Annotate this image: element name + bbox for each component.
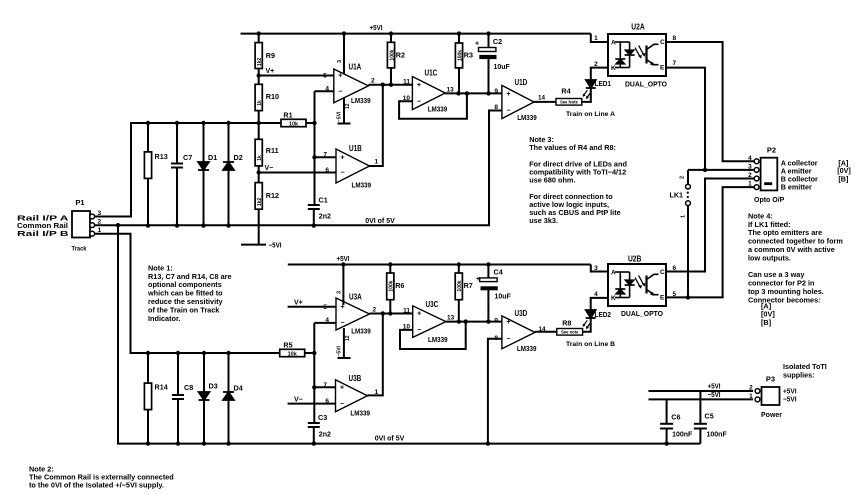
diode D3 [199, 382, 218, 401]
capacitor C4 [476, 268, 512, 301]
diode D4 [223, 384, 243, 401]
op-amp U3C [403, 300, 455, 344]
svg-text:LM339: LM339 [350, 411, 370, 418]
svg-text:1k2: 1k2 [257, 58, 263, 67]
svg-text:U1B: U1B [349, 144, 362, 153]
svg-text:0VI of 5V: 0VI of 5V [375, 436, 405, 443]
svg-text:1k2: 1k2 [257, 198, 263, 207]
wire D1 branch [203, 123, 205, 226]
svg-text:100k: 100k [457, 280, 463, 291]
junction C8 top on rail B [176, 351, 180, 355]
junction node V- (R11/R12) [257, 170, 261, 174]
label -5VI (P3) [783, 395, 797, 404]
label [0V] (P2) [837, 166, 851, 175]
junction R6 bottom on comparator bus [388, 311, 392, 315]
svg-text:12: 12 [345, 103, 351, 109]
wire D4 branch [228, 353, 230, 444]
LED LED1 [583, 80, 611, 99]
wire 0VI rail (bottom) [118, 225, 700, 443]
svg-text:U1D: U1D [515, 78, 528, 87]
svg-text:−: − [340, 170, 344, 177]
svg-text:E: E [660, 64, 665, 71]
junction U3B output on comparator bus [381, 311, 385, 315]
op-amp U3D [494, 309, 545, 353]
junction C7 top on rail A [175, 121, 179, 125]
net label 0VI of 5V (top) [365, 218, 395, 225]
resistor R1 [281, 111, 306, 128]
svg-text:LM339: LM339 [517, 346, 537, 353]
junction R9 top on +5VI rail [257, 31, 261, 35]
wire C8 bottom leg [177, 399, 179, 444]
svg-text:V+: V+ [294, 299, 303, 306]
net label V+ (top) [266, 68, 275, 75]
svg-text:+: + [338, 73, 342, 80]
op-amp U3B [323, 374, 378, 417]
svg-text:−: − [506, 108, 510, 115]
junction R14 bottom on 0VI rail [146, 441, 150, 445]
svg-text:LM339: LM339 [517, 115, 537, 122]
svg-text:−: − [417, 327, 421, 334]
svg-text:LM339: LM339 [351, 98, 371, 105]
svg-text:−: − [340, 401, 344, 408]
resistor R7 [455, 273, 473, 300]
wire U3A pin3 power [342, 265, 344, 306]
svg-text:8: 8 [673, 35, 677, 42]
svg-text:100nF: 100nF [707, 432, 728, 439]
junction R3 top on +5VI rail [457, 31, 461, 35]
svg-text:C8: C8 [184, 383, 193, 392]
svg-text:DUAL_OPTO: DUAL_OPTO [625, 80, 667, 89]
junction R5 right node [312, 351, 316, 355]
svg-text:U1C: U1C [425, 69, 438, 78]
svg-text:U3D: U3D [515, 309, 528, 318]
svg-text:R2: R2 [396, 51, 405, 60]
wire U1C feedback loop [399, 93, 467, 118]
svg-text:14: 14 [538, 95, 545, 102]
junction U3B +in tap [312, 385, 316, 389]
svg-text:2: 2 [680, 176, 686, 179]
svg-text:2: 2 [371, 78, 375, 85]
svg-text:100k: 100k [389, 280, 395, 291]
svg-text:−5VI: −5VI [269, 242, 282, 249]
svg-text:LM339: LM339 [428, 107, 448, 114]
svg-text:C: C [660, 39, 665, 46]
svg-text:U3B: U3B [349, 374, 362, 383]
svg-text:2: 2 [373, 307, 377, 314]
label Train on Line B [566, 341, 615, 348]
junction R6 top on +5VI rail [388, 262, 392, 266]
junction U1A pin3 on +5VI rail [342, 31, 346, 35]
svg-text:to the 0VI of the Isolated +/−: to the 0VI of the Isolated +/−5VI supply… [29, 481, 164, 490]
label [A] (P2) [838, 159, 848, 168]
svg-text:Indicator.: Indicator. [148, 314, 180, 323]
junction U1B output on comparator bus [381, 83, 385, 87]
svg-text:−5VI: −5VI [783, 395, 797, 404]
svg-text:V−: V− [265, 165, 274, 172]
junction C1 bottom on 0VI rail [312, 223, 316, 227]
wire D2 branch [228, 123, 230, 226]
label Rail I/P A [17, 214, 69, 223]
junction feedback on U3C output [464, 319, 468, 323]
wire U2A emitter riser [666, 68, 705, 170]
svg-text:R6: R6 [395, 281, 404, 290]
svg-text:2n2: 2n2 [319, 432, 331, 439]
junction R13 bottom on 0VI rail [146, 223, 150, 227]
svg-text:C4: C4 [494, 268, 503, 277]
svg-text:+: + [506, 91, 510, 98]
junction D1 bottom on 0VI rail [201, 223, 205, 227]
wire D3 branch [203, 353, 205, 444]
svg-text:10: 10 [403, 95, 411, 102]
svg-text:2: 2 [749, 385, 753, 392]
svg-text:U3A: U3A [349, 293, 362, 302]
wire U3B +in [314, 386, 335, 388]
note 2 text [29, 464, 174, 489]
svg-text:C6: C6 [671, 413, 680, 422]
svg-text:6: 6 [325, 167, 329, 174]
svg-text:+: + [340, 385, 344, 392]
svg-text:5: 5 [673, 291, 677, 298]
capacitor C7 [171, 153, 192, 168]
label B emitter [781, 183, 812, 192]
svg-text:10uF: 10uF [495, 293, 512, 300]
junction common rail branch at P1 [116, 223, 120, 227]
svg-text:R11: R11 [266, 146, 279, 155]
label [B] (P2) [838, 175, 848, 184]
svg-text:P2: P2 [767, 145, 776, 154]
wire -5VI stub to P3 pin1 [649, 398, 754, 400]
svg-text:1: 1 [594, 35, 598, 42]
svg-text:LM339: LM339 [352, 182, 372, 189]
label Train on Line A [566, 111, 615, 118]
svg-text:+: + [476, 276, 480, 283]
note 3 text [529, 135, 627, 225]
resistor R8 (See note) [557, 318, 583, 335]
junction D4 bottom on 0VI rail [226, 441, 230, 445]
wire P1 pin3 to rail A [94, 123, 282, 217]
svg-text:5: 5 [323, 73, 327, 80]
svg-text:V+: V+ [266, 68, 275, 75]
resistor R6 [387, 273, 405, 300]
op-amp U1C [403, 69, 454, 114]
wire C6 top leg [666, 399, 668, 423]
svg-text:−5VI: −5VI [708, 392, 721, 399]
wire C4 bottom leg [487, 290, 489, 322]
wire rail A segment R1 right [306, 122, 315, 124]
op-amp U3A [323, 291, 376, 357]
svg-text:R10: R10 [266, 92, 279, 101]
link LK1 [670, 176, 691, 218]
wire LK1 top link [687, 170, 689, 184]
junction divider tap on rail A [257, 121, 261, 125]
svg-text:R3: R3 [464, 51, 473, 60]
svg-text:100k: 100k [457, 50, 463, 61]
svg-text:14: 14 [539, 326, 546, 333]
label A emitter [781, 167, 812, 176]
svg-text:D1: D1 [208, 153, 217, 162]
wire U1C output row [445, 92, 502, 94]
svg-text:P1: P1 [75, 198, 84, 207]
svg-text:1: 1 [748, 181, 752, 188]
svg-text:1: 1 [375, 389, 379, 396]
junction U1B +in tap [312, 155, 316, 159]
svg-text:Opto O/P: Opto O/P [754, 197, 785, 204]
svg-text:K: K [611, 65, 616, 72]
wire C7 top leg [176, 123, 178, 164]
svg-text:100k: 100k [389, 49, 395, 60]
op-amp U1A [323, 60, 375, 122]
wire R8 to LED2 riser [582, 318, 591, 332]
svg-text:11: 11 [403, 78, 410, 85]
svg-text:6: 6 [325, 398, 329, 405]
svg-text:C7: C7 [183, 153, 192, 162]
svg-text:R9: R9 [266, 51, 275, 60]
wire U1D output to R4 [534, 101, 556, 103]
resistor R3 [455, 43, 473, 68]
svg-text:10uF: 10uF [494, 64, 511, 71]
resistor R4 (See Note) [556, 87, 582, 106]
opto-coupler U2B [594, 255, 676, 319]
power -5VI (U1A pin 12) [338, 98, 351, 124]
wire U3D -in riser [488, 339, 502, 444]
junction C4 bottom on U3C output [486, 319, 490, 323]
wire U1A output row [368, 84, 412, 86]
svg-text:R14: R14 [155, 383, 168, 392]
svg-text:R4: R4 [561, 87, 570, 96]
capacitor C1 [308, 196, 331, 221]
svg-text:R7: R7 [464, 281, 473, 290]
svg-text:11: 11 [403, 307, 410, 314]
svg-text:+: + [506, 319, 510, 326]
wire U1B output riser [368, 85, 382, 166]
svg-text:8: 8 [494, 335, 498, 342]
label Isolated ToTI supplies [783, 362, 827, 380]
net label 0VI of 5V (bottom) [375, 436, 405, 443]
svg-text:−5VI: −5VI [336, 345, 342, 356]
svg-text:supplies:: supplies: [783, 370, 815, 379]
svg-text:3: 3 [337, 291, 343, 294]
svg-text:R1: R1 [283, 111, 292, 120]
wire U3A output row [370, 313, 413, 315]
svg-text:+: + [340, 304, 344, 311]
capacitor C8 [172, 383, 193, 399]
svg-text:C2: C2 [493, 37, 502, 46]
svg-text:Power: Power [761, 412, 782, 419]
wire U3C output row [446, 321, 502, 323]
junction C2 top on +5VI rail [486, 31, 490, 35]
LED LED2 [583, 310, 611, 329]
wire C7 bottom leg [176, 168, 178, 226]
svg-text:use 3k3.: use 3k3. [529, 216, 558, 225]
wire U1B +in [315, 156, 337, 158]
net label +5VI (top rail) [370, 25, 383, 32]
wire LED1 to U2A K [591, 68, 608, 80]
svg-text:C3: C3 [318, 413, 327, 422]
svg-text:7: 7 [323, 382, 327, 389]
wire U1A -in [315, 90, 334, 92]
resistor R9 [255, 43, 275, 69]
op-amp U1D [494, 78, 545, 122]
svg-text:U2A: U2A [631, 23, 645, 32]
resistor R10 [255, 84, 279, 110]
svg-text:R13: R13 [155, 152, 168, 161]
svg-text:+5VI: +5VI [370, 25, 383, 32]
wire C8 top leg [177, 353, 179, 395]
diode D1 [198, 153, 217, 170]
junction LK1 on B-emitter wire [686, 295, 690, 299]
wire C3 bottom leg [313, 427, 315, 444]
svg-text:8: 8 [494, 104, 498, 111]
wire C5 top leg [699, 391, 701, 424]
wire V+ tap [259, 75, 334, 77]
svg-text:DUAL_OPTO: DUAL_OPTO [621, 309, 663, 318]
svg-text:P3: P3 [766, 375, 775, 384]
svg-text:D3: D3 [209, 382, 218, 391]
junction D2 top on rail A [226, 121, 230, 125]
note 1 text [147, 263, 232, 322]
svg-text:0VI of 5V: 0VI of 5V [365, 218, 395, 225]
svg-text:D4: D4 [234, 384, 243, 393]
connector P1 [72, 198, 102, 253]
wire U3A -in [314, 322, 336, 324]
svg-text:10k: 10k [288, 352, 298, 358]
junction D2 bottom on 0VI rail [226, 223, 230, 227]
junction D1 top on rail A [201, 121, 205, 125]
svg-text:1k: 1k [257, 155, 263, 161]
resistor R14 [144, 383, 167, 410]
svg-text:Train on Line A: Train on Line A [566, 111, 615, 118]
svg-text:10: 10 [403, 324, 411, 331]
net label V- (bottom) [294, 396, 303, 403]
wire C2 bottom leg [488, 59, 490, 93]
svg-text:−: − [340, 320, 344, 327]
junction D3 bottom on 0VI rail [202, 441, 206, 445]
svg-text:LED2: LED2 [595, 312, 612, 319]
junction node V+ (R9/R10) [257, 73, 261, 77]
svg-text:2: 2 [594, 61, 598, 68]
junction C3 bottom on 0VI rail [312, 441, 316, 445]
svg-text:+5VI: +5VI [708, 384, 721, 391]
diode D2 [223, 153, 243, 170]
svg-text:LED1: LED1 [595, 81, 612, 88]
wire P1 pin1 to rail B [94, 234, 281, 353]
wire R4 to LED1 riser [582, 88, 591, 102]
label Rail I/P B [17, 229, 69, 238]
svg-text:Connector becomes:: Connector becomes: [748, 295, 821, 304]
svg-text:10k: 10k [289, 122, 299, 128]
wire +5VI stub to P3 pin2 [649, 390, 754, 392]
wire divider chain R9-R12 [258, 34, 260, 245]
wire U3C feedback loop [400, 322, 466, 349]
wire C1 bottom leg [313, 209, 315, 226]
svg-text:K: K [611, 295, 616, 302]
svg-text:5: 5 [323, 304, 327, 311]
svg-text:6: 6 [673, 265, 677, 272]
resistor R5 [280, 341, 305, 358]
junction feedback on U1C output [465, 91, 469, 95]
svg-text:1: 1 [749, 393, 753, 400]
resistor R13 [144, 152, 167, 179]
resistor R11 [255, 139, 278, 166]
junction R1 right node [312, 121, 316, 125]
svg-text:LM339: LM339 [351, 329, 371, 336]
junction A-emitter / P2 pin3 / LK1 [703, 168, 707, 172]
svg-text:12: 12 [345, 335, 351, 341]
svg-text:+: + [475, 40, 479, 47]
svg-text:13: 13 [447, 87, 455, 94]
wire U2B collector to P2 pin2 [666, 179, 755, 272]
net label V- (top) [265, 165, 274, 172]
svg-text:13: 13 [447, 315, 455, 322]
svg-text:4: 4 [594, 291, 598, 298]
svg-text:See note: See note [561, 329, 579, 334]
svg-text:See Note: See Note [560, 99, 579, 104]
net label +5VI (bottom rail) [337, 256, 350, 263]
svg-text:2n2: 2n2 [319, 214, 331, 221]
wire R2 pull-up branch [390, 34, 392, 85]
svg-text:−5VI: −5VI [336, 111, 342, 122]
svg-text:use 680 ohm.: use 680 ohm. [529, 176, 575, 185]
svg-text:4: 4 [325, 85, 329, 92]
svg-text:3: 3 [748, 163, 752, 170]
junction C7 bottom on 0VI rail [175, 223, 179, 227]
svg-text:C1: C1 [319, 196, 328, 205]
svg-text:LK1: LK1 [670, 193, 684, 200]
wire C2 top stub [488, 34, 490, 48]
junction C2 bottom on U1C output [486, 91, 490, 95]
junction R7 bottom on U3C output [457, 319, 461, 323]
junction C4 top on +5VI rail [486, 262, 490, 266]
wire R13 branch [147, 123, 149, 226]
wire U3B output riser [367, 314, 382, 396]
svg-text:2: 2 [748, 172, 752, 179]
svg-text:The values of R4 and R8:: The values of R4 and R8: [529, 143, 616, 152]
junction U3A pin3 on +5VI rail [341, 262, 345, 266]
junction D3 top on rail B [202, 351, 206, 355]
capacitor C3 [308, 413, 331, 439]
junction R13 top on rail A [146, 121, 150, 125]
svg-text:V−: V− [294, 396, 303, 403]
wire V- tap [259, 172, 336, 174]
svg-text:1k: 1k [257, 100, 263, 106]
svg-text:R8: R8 [562, 318, 571, 327]
wire LED2 to U2B K [591, 298, 608, 310]
svg-text:−: − [417, 98, 421, 105]
svg-text:2: 2 [98, 219, 102, 226]
capacitor C5 [694, 412, 728, 439]
wire input node vertical (top) [314, 91, 316, 205]
svg-text:−: − [506, 336, 510, 343]
capacitor C2 [475, 37, 511, 71]
wire input node vertical (bottom) [313, 323, 315, 423]
svg-text:3: 3 [337, 60, 343, 63]
svg-text:low outputs.: low outputs. [748, 253, 791, 262]
wire R3 pull-up branch [458, 34, 460, 94]
svg-text:LM339: LM339 [428, 337, 448, 344]
wire C5 bottom leg [699, 429, 701, 444]
junction R14 top on rail B [146, 351, 150, 355]
svg-text:−: − [338, 88, 342, 95]
svg-text:B emitter: B emitter [781, 183, 812, 192]
opto-coupler U2A [594, 23, 676, 89]
svg-text:R12: R12 [266, 191, 279, 200]
svg-text:4: 4 [748, 155, 752, 162]
svg-text:A: A [611, 270, 616, 277]
wire R14 branch [147, 353, 149, 444]
wire LK1 bottom to emitter B [687, 206, 689, 298]
svg-text:7: 7 [673, 60, 677, 67]
svg-text:4: 4 [325, 317, 329, 324]
